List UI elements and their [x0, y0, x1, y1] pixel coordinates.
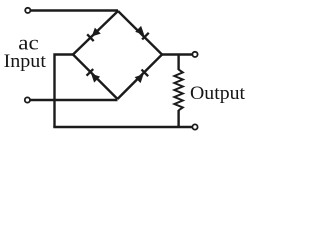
- diode D1 (top-left arm): [73, 11, 118, 55]
- svg-text:Output: Output: [190, 84, 246, 104]
- terminal output top: [192, 52, 197, 57]
- wire resistor top lead: [177, 55, 179, 71]
- terminal ac input bottom: [25, 97, 30, 102]
- diode D4 (bottom-right arm): [118, 55, 163, 100]
- diode D2 (top-right arm): [118, 11, 162, 55]
- terminal output bottom: [192, 124, 197, 129]
- svg-text:Input: Input: [4, 51, 47, 72]
- wire right vertex to output terminal: [162, 53, 193, 55]
- wire top ac lead: [31, 9, 119, 11]
- wire left vertex stub: [55, 55, 74, 128]
- wire bottom dc rail: [53, 126, 192, 128]
- wire bottom ac lead: [30, 99, 118, 101]
- diode D3 (bottom-left arm): [73, 55, 118, 100]
- terminal ac input top: [25, 8, 30, 13]
- resistor R (load): [174, 70, 182, 111]
- wire resistor bottom lead: [177, 110, 179, 127]
